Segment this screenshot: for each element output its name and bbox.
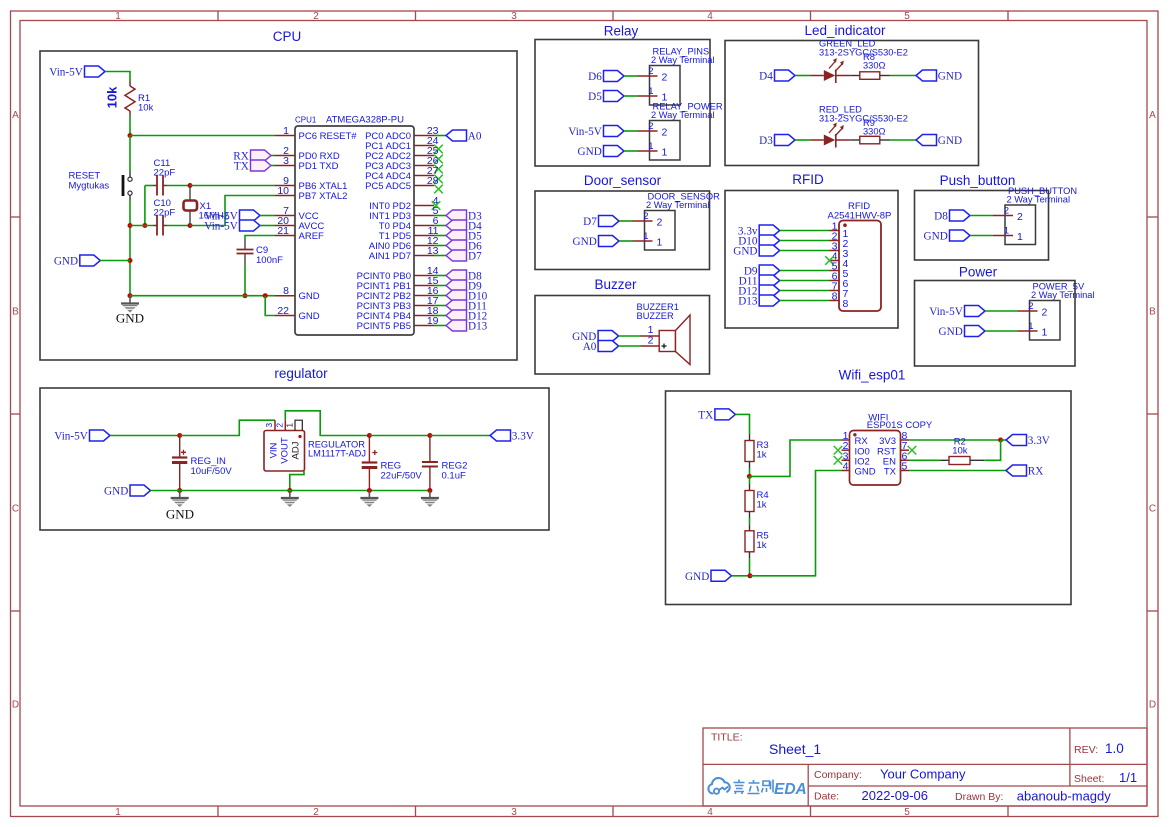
svg-text:2: 2 xyxy=(1042,307,1048,319)
svg-text:2 Way Terminal: 2 Way Terminal xyxy=(651,55,715,65)
net flag D6 xyxy=(604,71,625,82)
wire GND to BUZZER1 pin1 xyxy=(619,335,641,337)
wire C10 to crystal bottom node xyxy=(167,225,190,227)
wire pin 14 to D8 xyxy=(434,275,446,277)
svg-text:2 Way Terminal: 2 Way Terminal xyxy=(646,200,710,210)
wire AVCC flag to pin20 xyxy=(260,225,275,227)
svg-text:D13: D13 xyxy=(738,296,758,308)
net flag Vin-5V (AVCC) xyxy=(240,220,261,231)
wire Vin-5V to R1 xyxy=(105,72,130,82)
svg-text:1: 1 xyxy=(1004,226,1009,237)
svg-text:1: 1 xyxy=(662,147,668,159)
svg-text:Date:: Date: xyxy=(814,791,839,803)
svg-text:GND: GND xyxy=(578,146,602,158)
wire D6 to RELAY_PINS pin2 xyxy=(624,75,638,77)
wire 3.3V rail to flag xyxy=(430,435,490,437)
no-connect pin 27 xyxy=(434,175,443,184)
svg-text:PC5 ADC5: PC5 ADC5 xyxy=(365,181,411,192)
wire diode to R8 xyxy=(850,75,860,77)
svg-text:10k: 10k xyxy=(105,86,120,108)
svg-text:GND: GND xyxy=(573,236,597,248)
IC WIFI ESP01S COPY body xyxy=(850,431,901,486)
CPU1 pin 7 (VCC) xyxy=(275,215,295,217)
wire 3.3V rail segment xyxy=(369,435,430,437)
wire VCC flag to pin7 xyxy=(260,215,275,217)
junction GND rail / REG_IN xyxy=(177,488,182,493)
svg-text:4: 4 xyxy=(707,807,713,818)
CPU1 pin 4 (INT0 PD2) xyxy=(414,205,434,207)
section box CPU xyxy=(40,51,517,360)
wire WIFI 3V3 to 3.3V flag xyxy=(909,439,1001,441)
svg-text:Door_sensor: Door_sensor xyxy=(584,173,662,188)
svg-text:D5: D5 xyxy=(588,91,602,103)
svg-text:GND: GND xyxy=(116,311,144,326)
CPU1 pin 18 (PCINT4 PB4) xyxy=(414,315,434,317)
svg-text:3.3V: 3.3V xyxy=(1028,435,1050,447)
wire pin 23 to A0 xyxy=(434,135,446,137)
RFID pin 1 xyxy=(830,230,840,232)
RFID pin 6 xyxy=(830,280,840,282)
net flag GND (regulator) xyxy=(130,485,151,496)
wire input rail to U-reg pin3 xyxy=(180,420,275,435)
svg-text:2: 2 xyxy=(1017,211,1023,223)
wire C11 gnd column xyxy=(144,186,146,226)
svg-text:3.3V: 3.3V xyxy=(512,431,534,443)
no-connect RFID pin 4 xyxy=(825,256,834,265)
wire pin 17 to D11 xyxy=(434,305,446,307)
net flag GND (CPU) xyxy=(80,255,101,266)
no-connect pin 28 xyxy=(434,185,443,194)
RFID pin 3 xyxy=(830,250,840,252)
section box regulator xyxy=(40,388,549,530)
svg-text:1k: 1k xyxy=(757,450,767,461)
net flag D11 (RFID) xyxy=(759,275,780,286)
no-connect WIFI pin3 xyxy=(834,456,843,465)
svg-text:28: 28 xyxy=(427,175,439,187)
net flag Vin-5V (power) xyxy=(965,306,986,317)
svg-text:Company:: Company: xyxy=(814,769,862,781)
REGULATOR pin 2 (VOUT) xyxy=(284,420,286,430)
svg-text:TX: TX xyxy=(234,161,249,173)
svg-text:A0: A0 xyxy=(583,341,597,353)
net flag Vin-5V (relay) xyxy=(604,126,625,137)
CPU1 pin 22 (GND) xyxy=(275,315,295,317)
wire R2 to 3.3V junction xyxy=(984,440,1000,460)
wire RX port to pin2 xyxy=(271,155,275,157)
junction GND rail / R5 xyxy=(748,573,753,578)
wire GND to POWER_5V pin1 xyxy=(985,330,1018,332)
wire R8 to GND flag xyxy=(880,75,890,77)
svg-text:10uF/50V: 10uF/50V xyxy=(191,466,233,477)
junction GND rail / REG2 xyxy=(427,488,432,493)
wire A0 to BUZZER1 pin2 xyxy=(619,345,641,347)
net flag D7 xyxy=(599,216,620,227)
logo JLC EDA cloud icon xyxy=(708,778,729,794)
net flag GND (GREEN_LED) xyxy=(916,70,937,81)
svg-text:A: A xyxy=(1149,110,1156,121)
no-connect pin 25 xyxy=(434,155,443,164)
LED diode GREEN_LED anode pin xyxy=(810,75,824,77)
svg-text:Power: Power xyxy=(959,265,998,280)
LED diode RED_LED anode pin xyxy=(810,139,824,141)
svg-text:LM1117T-ADJ: LM1117T-ADJ xyxy=(308,449,366,459)
wire GND to RFID pin 3 xyxy=(780,250,830,252)
wire GND column lower xyxy=(129,261,131,296)
svg-text:2: 2 xyxy=(643,211,648,222)
CPU1 pin 12 (AIN0 PD6) xyxy=(414,245,434,247)
CPU1 pin 6 (T0 PD4) xyxy=(414,225,434,227)
WIFI pin 8 (3V3) xyxy=(901,439,910,441)
svg-text:D8: D8 xyxy=(934,211,948,223)
CPU1 pin 25 (PC2 ADC2) xyxy=(414,155,434,157)
wire D12 to RFID pin 7 xyxy=(780,290,830,292)
svg-text:Sheet_1: Sheet_1 xyxy=(769,741,821,757)
svg-text:ESP01S COPY: ESP01S COPY xyxy=(867,420,933,431)
svg-text:Your Company: Your Company xyxy=(880,767,966,782)
svg-text:D7: D7 xyxy=(583,216,597,228)
CPU1 pin 28 (PC5 ADC5) xyxy=(414,185,434,187)
no-connect pin 26 xyxy=(434,165,443,174)
CPU1 pin 2 (PD0 RXD) xyxy=(275,155,295,157)
RFID pin 7 xyxy=(830,290,840,292)
svg-text:5: 5 xyxy=(902,461,908,473)
svg-text:Vin-5V: Vin-5V xyxy=(54,431,88,443)
wire pin 5 to D3 xyxy=(434,215,446,217)
net flag 3.3V (regulator) xyxy=(490,430,511,441)
crystal X1 (16MHz) xyxy=(184,201,198,211)
REGULATOR pin1 mark xyxy=(298,435,301,438)
wire GND rail xyxy=(180,490,430,492)
CPU1 pin 27 (PC4 ADC4) xyxy=(414,175,434,177)
resistor R9 (330) xyxy=(860,136,880,144)
no-connect WIFI pin2 xyxy=(834,446,843,455)
svg-text:5: 5 xyxy=(904,11,910,22)
svg-text:1.0: 1.0 xyxy=(1105,741,1124,756)
RFID pin1 mark xyxy=(843,223,847,227)
junction XTAL1 node xyxy=(188,183,193,188)
wire GND flag to column xyxy=(100,260,130,262)
RELAY_POWER pin 2 xyxy=(638,130,658,132)
wire GND rail to pin22 xyxy=(265,296,275,316)
junction 3.3V rail / REG cap xyxy=(367,433,372,438)
svg-text:1: 1 xyxy=(1028,321,1033,332)
stem to ground symbol xyxy=(368,491,370,499)
net flag GND (door) xyxy=(599,236,620,247)
net flag GND (power) xyxy=(965,326,986,337)
svg-text:RFID: RFID xyxy=(792,172,824,187)
net flag GND (RFID) xyxy=(759,245,780,256)
junction R3/R4 node xyxy=(747,474,752,479)
svg-text:3: 3 xyxy=(511,11,517,22)
svg-text:4: 4 xyxy=(843,461,849,473)
IC CPU1 ATMEGA328P-PU body xyxy=(295,126,414,335)
wire RESET node down xyxy=(129,136,131,172)
svg-text:5: 5 xyxy=(904,807,910,818)
PUSH_BUTTON pin 1 xyxy=(993,235,1013,237)
RFID pin 4 xyxy=(830,260,840,262)
wire GND flag to rail xyxy=(151,490,180,492)
svg-text:VOUT: VOUT xyxy=(280,437,291,464)
frame column ticks top xyxy=(218,11,1008,21)
svg-text:1/1: 1/1 xyxy=(1119,770,1137,785)
ground symbol (regulator tab) xyxy=(281,498,299,507)
RELAY_PINS pin 2 xyxy=(638,75,658,77)
net port D4 xyxy=(446,220,467,231)
svg-text:Relay: Relay xyxy=(604,24,639,39)
svg-text:1: 1 xyxy=(643,231,648,242)
svg-text:8: 8 xyxy=(283,285,289,297)
junction C11-gnd column / C10 row xyxy=(142,223,147,228)
WIFI pin 7 (RST) xyxy=(901,449,910,451)
CPU1 pin 1 (PC6 RESET#) xyxy=(275,135,295,137)
RFID pin 8 xyxy=(830,300,840,302)
net port D7 xyxy=(446,250,467,261)
net flag 3.3v (RFID) xyxy=(759,225,780,236)
POWER_5V pin 2 xyxy=(1018,310,1038,312)
svg-text:2: 2 xyxy=(662,127,668,139)
net port D3 xyxy=(446,210,467,221)
svg-text:1: 1 xyxy=(1042,327,1048,339)
svg-text:GND: GND xyxy=(166,507,194,522)
svg-text:2 Way Terminal: 2 Way Terminal xyxy=(1031,290,1095,300)
svg-text:3: 3 xyxy=(511,807,517,818)
svg-text:GND: GND xyxy=(685,571,709,583)
section box Push_button xyxy=(915,191,1049,261)
svg-text:B: B xyxy=(1149,307,1156,318)
svg-text:21: 21 xyxy=(277,225,289,237)
net flag A0 xyxy=(446,130,467,141)
CPU1 pin 21 (AREF) xyxy=(275,235,295,237)
RELAY_POWER pin 1 xyxy=(638,150,658,152)
svg-text:Buzzer: Buzzer xyxy=(594,277,637,292)
no-connect pin 4 xyxy=(432,201,441,210)
wire AREF to C9 xyxy=(245,236,275,240)
stem to ground symbol xyxy=(289,491,291,499)
wire C11 left xyxy=(145,185,153,187)
CPU1 pin 24 (PC1 ADC1) xyxy=(414,145,434,147)
svg-text:AIN1 PD7: AIN1 PD7 xyxy=(369,251,411,262)
svg-text:Vin-5V: Vin-5V xyxy=(204,221,238,233)
wire VOUT to 3.3V rail xyxy=(285,411,369,436)
svg-text:abanoub-magdy: abanoub-magdy xyxy=(1017,789,1111,804)
stem to ground symbol xyxy=(179,491,181,499)
connector POWER_5V (POWER_5V 2 Way Terminal) body xyxy=(1030,301,1061,341)
svg-text:GND: GND xyxy=(855,467,876,478)
net port TX xyxy=(251,160,272,171)
capacitor REG (22uF/50V) polarized xyxy=(362,436,378,491)
junction REG_IN top xyxy=(177,433,182,438)
svg-text:A: A xyxy=(12,110,19,121)
wire GND to DOOR_SENSOR pin1 xyxy=(619,240,633,242)
svg-text:1: 1 xyxy=(283,125,289,137)
wire pin 13 to D7 xyxy=(434,255,446,257)
wire D10 to RFID pin 2 xyxy=(780,240,830,242)
BUZZER1 pin 2 xyxy=(641,345,660,347)
svg-text:100nF: 100nF xyxy=(256,255,283,266)
net flag D4 xyxy=(775,70,796,81)
wire R9 to GND xyxy=(890,139,916,141)
ground symbol (REG2) xyxy=(421,498,439,507)
wire C9 to GND rail xyxy=(244,266,246,296)
wire pin 12 to D6 xyxy=(434,245,446,247)
wire R4 to R5 xyxy=(749,518,751,524)
LED diode RED_LED cathode pin xyxy=(836,139,850,141)
connector RFID A2541HWV-8P body xyxy=(839,221,881,312)
svg-text:GND: GND xyxy=(104,486,128,498)
junction node RESET at R1/SW xyxy=(128,133,133,138)
net port D9 xyxy=(446,280,467,291)
ground symbol (REG) xyxy=(360,498,378,507)
svg-text:D: D xyxy=(1149,700,1156,711)
svg-text:3: 3 xyxy=(283,155,289,167)
connector RELAY_POWER (RELAY_POWER 2 Way Terminal) body xyxy=(650,121,681,161)
wire D5 to RELAY_PINS pin1 xyxy=(624,95,638,97)
svg-text:2022-09-06: 2022-09-06 xyxy=(862,788,929,803)
buzzer polarity + xyxy=(662,344,667,349)
net flag D12 (RFID) xyxy=(759,285,780,296)
net flag Vin-5V (regulator) xyxy=(90,430,111,441)
svg-text:2: 2 xyxy=(313,807,319,818)
wire pin 16 to D10 xyxy=(434,295,446,297)
svg-text:CPU1: CPU1 xyxy=(295,116,317,125)
svg-text:B: B xyxy=(12,307,19,318)
no-connect WIFI pin7 xyxy=(908,446,917,455)
svg-text:2 Way Terminal: 2 Way Terminal xyxy=(651,110,715,120)
svg-text:GND: GND xyxy=(299,291,320,302)
svg-text:D6: D6 xyxy=(588,71,602,83)
svg-text:1k: 1k xyxy=(757,500,767,511)
wire R1 to node RESET xyxy=(129,116,131,136)
frame row ticks right xyxy=(1147,217,1158,611)
net flag GND (push button) xyxy=(950,230,971,241)
net port D11 xyxy=(446,300,467,311)
junction GND column / GND rail xyxy=(128,293,133,298)
svg-text:PC6 RESET#: PC6 RESET# xyxy=(299,131,358,142)
no-connect pin 24 xyxy=(434,145,443,154)
svg-text:C: C xyxy=(1149,504,1156,515)
buzzer BUZZER1 body xyxy=(659,315,690,365)
svg-text:ADJ: ADJ xyxy=(291,441,302,459)
junction GND rail / C9 xyxy=(243,293,248,298)
wire pin 11 to D5 xyxy=(434,235,446,237)
wire pin 15 to D9 xyxy=(434,285,446,287)
svg-text:ATMEGA328P-PU: ATMEGA328P-PU xyxy=(326,115,404,126)
junction GND column / C10 row xyxy=(128,223,133,228)
CPU1 pin 9 (PB6 XTAL1) xyxy=(275,185,295,187)
svg-text:22pF: 22pF xyxy=(154,168,176,179)
capacitor C9 (100nF) xyxy=(237,239,254,266)
svg-text:Led_indicator: Led_indicator xyxy=(804,23,886,38)
svg-text:TX: TX xyxy=(698,409,713,421)
svg-text:Mygtukas: Mygtukas xyxy=(69,180,110,191)
wire R3 to node xyxy=(749,468,751,476)
svg-text:1: 1 xyxy=(648,141,653,152)
capacitor C10 (22pF) xyxy=(153,216,167,236)
svg-text:1: 1 xyxy=(1017,231,1023,243)
CPU1 pin 5 (INT1 PD3) xyxy=(414,215,434,217)
ground symbol (CPU) xyxy=(121,304,139,313)
svg-text:10k: 10k xyxy=(138,103,154,114)
wire GND rail xyxy=(130,295,275,297)
resistor R5 (1k) xyxy=(745,524,754,558)
svg-text:2: 2 xyxy=(648,66,653,77)
wire D4 to diode xyxy=(795,75,810,77)
section box Relay xyxy=(535,40,710,167)
svg-text:A0: A0 xyxy=(468,131,482,143)
svg-text:2: 2 xyxy=(1028,301,1033,312)
section box Wifi_esp01 xyxy=(666,391,1072,605)
net flag GND (wifi) xyxy=(711,570,732,581)
CPU1 pin 20 (AVCC) xyxy=(275,225,295,227)
svg-text:D3: D3 xyxy=(759,135,773,147)
logo text JiaLiChuang (CJK strokes) xyxy=(734,780,774,795)
net port D10 xyxy=(446,290,467,301)
svg-text:TX: TX xyxy=(884,467,897,478)
resistor R1 (10k) xyxy=(125,82,135,116)
section box Power xyxy=(915,281,1076,367)
PUSH_BUTTON pin 2 xyxy=(993,215,1013,217)
svg-text:2: 2 xyxy=(274,423,284,428)
net port RX xyxy=(251,150,272,161)
svg-text:0.1uF: 0.1uF xyxy=(442,470,466,481)
svg-text:10: 10 xyxy=(277,185,289,197)
svg-text:2 Way Terminal: 2 Way Terminal xyxy=(1007,195,1071,205)
CPU1 pin 3 (PD1 TXD) xyxy=(275,165,295,167)
WIFI pin 3 (IO2) xyxy=(842,459,850,461)
wire diode to R9 xyxy=(850,139,860,141)
svg-text:1: 1 xyxy=(115,807,121,818)
junction GND rail / pin22 branch xyxy=(263,293,268,298)
svg-text:2: 2 xyxy=(662,72,668,84)
WIFI pin 4 (GND) xyxy=(842,470,850,472)
svg-text:22uF/50V: 22uF/50V xyxy=(381,470,423,481)
net port D6 xyxy=(446,240,467,251)
RFID pin 2 xyxy=(830,240,840,242)
connector PUSH_BUTTON (PUSH_BUTTON 2 Way Terminal) body xyxy=(1005,205,1036,245)
CPU1 pin 11 (T1 PD5) xyxy=(414,235,434,237)
wire TX to R3 xyxy=(735,414,749,434)
section box Door_sensor xyxy=(535,191,710,270)
svg-text:1: 1 xyxy=(115,11,121,22)
crystal X1 pins xyxy=(189,186,191,226)
WIFI pin 6 (EN) xyxy=(901,459,910,461)
LED diode RED_LED xyxy=(824,123,844,148)
svg-text:BUZZER: BUZZER xyxy=(637,311,674,321)
wire R8 to GND xyxy=(890,75,916,77)
junction GND column / GND flag xyxy=(128,258,133,263)
wire R3/R4 node to WIFI pin1 xyxy=(749,440,841,476)
CPU1 pin 23 (PC0 ADC0) xyxy=(414,135,434,137)
net flag D5 xyxy=(604,91,625,102)
REGULATOR pin 1 (ADJ) xyxy=(295,420,302,430)
CPU1 pin 14 (PCINT0 PB0) xyxy=(414,275,434,277)
svg-text:3: 3 xyxy=(264,423,274,428)
wire D9 to RFID pin 5 xyxy=(780,270,830,272)
wire pin 19 to D13 xyxy=(434,325,446,327)
svg-text:D4: D4 xyxy=(759,71,773,83)
net port D5 xyxy=(446,230,467,241)
wire TX port to pin3 xyxy=(271,165,275,167)
wire 3.3v to RFID pin 1 xyxy=(780,230,830,232)
section box RFID xyxy=(725,191,898,329)
DOOR_SENSOR pin 2 xyxy=(633,220,653,222)
svg-text:TITLE:: TITLE: xyxy=(711,732,743,744)
DOOR_SENSOR pin 1 xyxy=(633,240,653,242)
wire RESET node to CPU1 pin1 xyxy=(130,135,275,137)
push button RESET contacts xyxy=(128,177,132,195)
svg-text:GND: GND xyxy=(938,71,962,83)
CPU1 pin 17 (PCINT3 PB3) xyxy=(414,305,434,307)
